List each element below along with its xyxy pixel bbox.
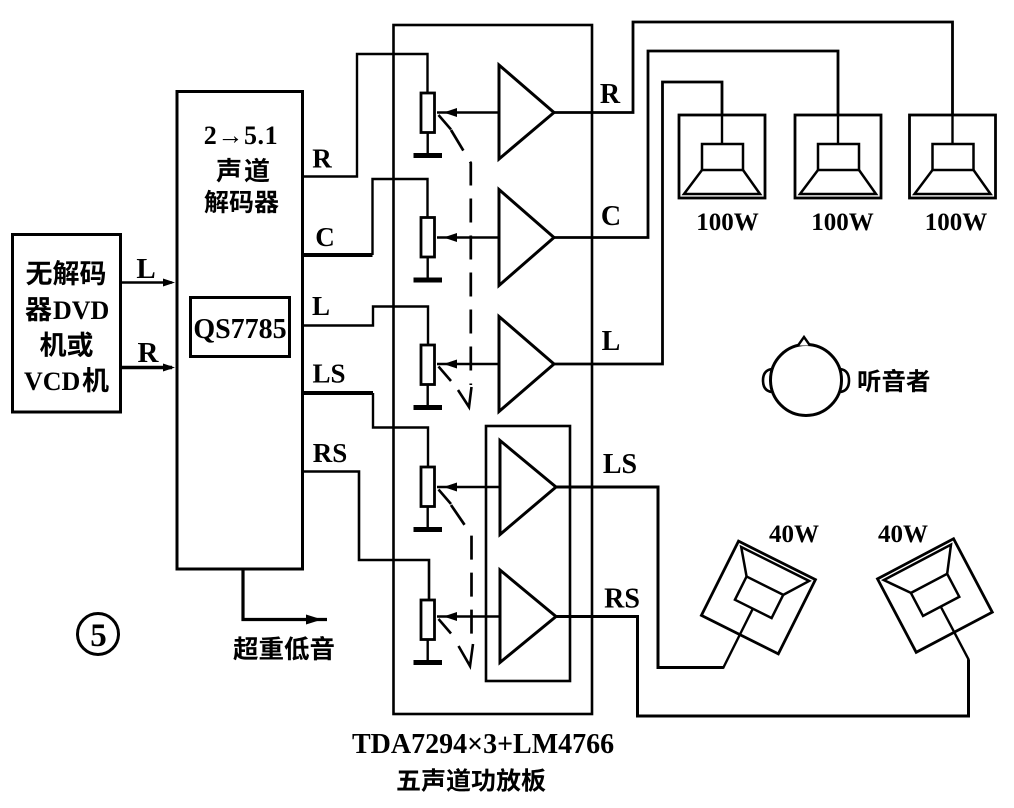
figure number 5 in circle xyxy=(78,614,119,655)
svg-text:QS7785: QS7785 xyxy=(193,314,286,345)
svg-text:100W: 100W xyxy=(811,209,874,236)
source box label line 1 xyxy=(26,260,105,285)
svg-text:L: L xyxy=(312,291,330,321)
wire LS decoder stub xyxy=(302,391,373,395)
potentiometer VR2 xyxy=(421,218,499,258)
svg-text:LS: LS xyxy=(312,359,345,389)
wire amp A1 output R to front-right speaker xyxy=(554,22,953,115)
svg-text:100W: 100W xyxy=(696,209,759,236)
op-amp A1 xyxy=(499,65,554,159)
potentiometer VR4 xyxy=(421,467,500,507)
wire amp A2 output C to center speaker xyxy=(554,51,838,238)
coupling arrow upper xyxy=(458,387,472,407)
svg-text:VCD: VCD xyxy=(24,367,80,396)
svg-text:100W: 100W xyxy=(925,209,988,236)
speaker LS2 center 100W xyxy=(795,115,881,198)
listener label 听音者 xyxy=(859,369,930,392)
op-amp A2 xyxy=(499,190,554,286)
svg-text:TDA7294×3+LM4766: TDA7294×3+LM4766 xyxy=(352,729,614,760)
potentiometer VR3 xyxy=(421,345,499,385)
speaker LS3 front-right 100W xyxy=(910,115,996,198)
potentiometer VR5 xyxy=(421,600,500,640)
dashed mechanical coupling upper (VR1-VR3) xyxy=(451,130,471,385)
decoder label line 2 xyxy=(216,158,269,183)
decoder label line 3 xyxy=(204,190,278,214)
wire amp A3 output L to front-left speaker xyxy=(554,82,722,364)
decoder box U1: 2-to-5.1 channel decoder xyxy=(177,92,303,570)
svg-text:C: C xyxy=(315,222,335,252)
svg-text:2→5.1: 2→5.1 xyxy=(204,121,279,150)
speaker LS4 rear-left 40W xyxy=(684,541,815,688)
op-amp A4 xyxy=(500,441,556,535)
ground below VR1 xyxy=(414,133,443,156)
wire amp A5 output RS to rear-right speaker xyxy=(556,617,969,717)
svg-text:40W: 40W xyxy=(878,521,928,548)
wire R input with arrow xyxy=(121,364,175,372)
wire R decoder to VR1 xyxy=(302,54,428,177)
svg-text:LS: LS xyxy=(603,449,637,480)
ground below VR5 xyxy=(414,640,443,663)
wire C to VR2 xyxy=(373,179,428,255)
amplifier board outer box xyxy=(394,25,593,714)
svg-text:RS: RS xyxy=(604,584,640,615)
svg-text:R: R xyxy=(600,79,621,110)
source box label line 2 xyxy=(26,297,52,321)
ground below VR3 xyxy=(414,385,443,408)
svg-text:5: 5 xyxy=(90,618,107,654)
wire L decoder to VR3 xyxy=(302,307,428,346)
ground below VR2 xyxy=(414,257,443,280)
listener head (top view) xyxy=(763,337,849,416)
svg-text:RS: RS xyxy=(313,438,348,468)
speaker LS5 rear-right 40W xyxy=(877,539,1006,680)
subwoofer label 超重低音 xyxy=(233,636,333,660)
svg-text:40W: 40W xyxy=(769,521,819,548)
svg-text:R: R xyxy=(312,144,332,174)
wire RS decoder to VR5 xyxy=(302,472,429,601)
svg-text:DVD: DVD xyxy=(53,296,109,325)
svg-text:R: R xyxy=(138,337,160,369)
svg-text:C: C xyxy=(601,201,621,232)
wire LS to VR4 xyxy=(373,393,428,467)
op-amp A3 xyxy=(499,317,554,412)
ground below VR4 xyxy=(414,507,443,530)
LM4766 inner module box xyxy=(486,426,570,681)
dashed mechanical coupling lower (VR4-VR5) xyxy=(451,505,472,640)
wire C decoder stub xyxy=(302,253,373,257)
coupling arrow lower xyxy=(459,644,474,666)
caption line 2: 五声道功放板 xyxy=(397,768,545,792)
svg-text:L: L xyxy=(136,253,155,285)
wire amp A4 output LS to rear-left speaker xyxy=(556,487,723,668)
chip U2 QS7785 xyxy=(191,298,290,357)
op-amp A5 xyxy=(500,570,556,663)
svg-text:L: L xyxy=(602,326,621,357)
speaker LS1 front-left 100W xyxy=(679,115,765,198)
wire L input with arrow xyxy=(121,279,175,287)
source box label line 3 xyxy=(40,331,93,357)
wire subwoofer output with arrow xyxy=(243,569,327,625)
potentiometer VR1 xyxy=(421,93,499,133)
source box: DVD/VCD player xyxy=(13,235,121,413)
